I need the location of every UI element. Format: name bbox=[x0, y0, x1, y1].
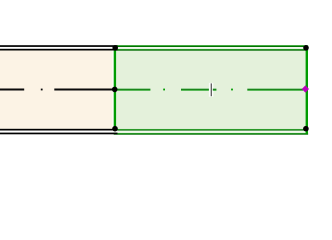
centerline left dash 2 bbox=[54, 89, 112, 91]
wall right (selected) fill bbox=[116, 51, 306, 129]
wall right top edge outer line bbox=[114, 45, 308, 47]
selection handle top-right bbox=[303, 45, 309, 51]
wall right top edge gap tint bbox=[116, 47, 306, 49]
selection handle top-left bbox=[112, 45, 118, 51]
centerline right dash 2 bbox=[181, 88, 209, 91]
wall right right edge line bbox=[306, 46, 308, 134]
reference point diamond right-middle bbox=[302, 85, 309, 92]
centerline right short dash at center mark bbox=[213, 88, 217, 91]
centerline right dash 3 bbox=[247, 88, 303, 91]
center cross vertical bar bbox=[211, 83, 212, 96]
wall left bottom edge gap bbox=[0, 131, 118, 133]
wall right bottom edge inner line bbox=[114, 129, 308, 131]
centerline right dash 1 bbox=[115, 88, 151, 91]
wall right left edge line bbox=[114, 46, 116, 134]
wall right bottom edge outer line bbox=[114, 133, 308, 135]
centerline right dot 1 bbox=[163, 89, 165, 91]
wall left top edge inner line bbox=[0, 49, 118, 51]
selection handle middle-left bbox=[112, 87, 118, 93]
wall left fill bbox=[0, 51, 112, 129]
wall right top edge inner line bbox=[114, 49, 308, 51]
wall left top edge gap bbox=[0, 47, 118, 49]
wall left bottom edge outer line bbox=[0, 133, 118, 135]
wall right bottom edge gap tint bbox=[116, 131, 306, 133]
centerline left dot bbox=[41, 89, 43, 91]
centerline right dot 2 bbox=[231, 89, 233, 91]
selection handle bottom-left bbox=[112, 126, 118, 132]
centerline left dash 1 bbox=[0, 89, 24, 91]
selection handle bottom-right bbox=[303, 126, 309, 132]
wall left bottom edge inner line bbox=[0, 129, 118, 131]
center cross halo bbox=[209, 83, 213, 97]
wall left top edge outer line bbox=[0, 45, 118, 47]
